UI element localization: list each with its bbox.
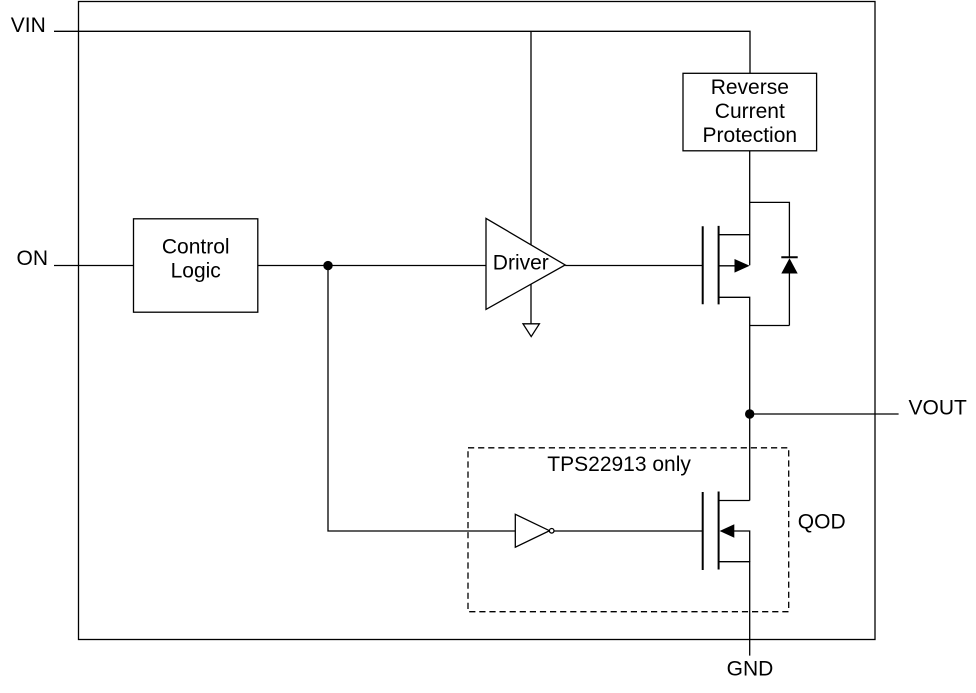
svg-text:Driver: Driver: [493, 252, 549, 275]
svg-text:Current: Current: [715, 100, 785, 123]
svg-text:VIN: VIN: [11, 14, 46, 37]
svg-text:Reverse: Reverse: [711, 76, 789, 99]
svg-text:Logic: Logic: [171, 260, 221, 283]
svg-text:Protection: Protection: [703, 124, 798, 147]
svg-text:GND: GND: [727, 658, 774, 681]
svg-text:TPS22913 only: TPS22913 only: [547, 453, 691, 476]
svg-text:Control: Control: [162, 236, 230, 259]
svg-text:VOUT: VOUT: [909, 397, 968, 420]
svg-text:QOD: QOD: [798, 510, 846, 533]
svg-text:ON: ON: [17, 247, 49, 270]
